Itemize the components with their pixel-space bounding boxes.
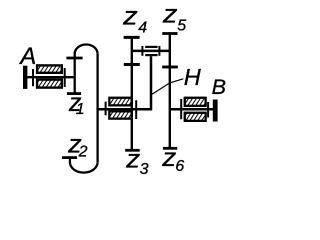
gear z1 line: [74, 52, 76, 95]
svg-text:3: 3: [140, 161, 149, 178]
wheel A lower hatched block: [37, 80, 62, 88]
wire planet axle rail: [132, 50, 170, 53]
bearing tick right of wheel A: [64, 68, 66, 87]
output terminal bar B: [213, 100, 218, 122]
gear z4 bottom tick: [124, 63, 140, 66]
wire central shaft: [98, 108, 152, 111]
bearing tick left of central wheel: [105, 102, 107, 116]
gear z5-z6 line: [169, 34, 171, 149]
wheel B lower hatched block: [185, 113, 206, 121]
carrier bracket right line: [96, 54, 98, 163]
svg-text:2: 2: [78, 143, 88, 160]
gear z5 top tick: [162, 32, 177, 35]
bearing tick right of central wheel: [135, 100, 137, 119]
carrier bearing bottom bar: [145, 54, 157, 56]
svg-text:1: 1: [76, 101, 85, 118]
gear z1 top tick: [66, 57, 82, 60]
svg-text:6: 6: [175, 158, 184, 175]
bearing tick left of wheel B: [180, 99, 182, 119]
gear z2 stub: [69, 158, 71, 163]
gear z6 bottom tick: [163, 147, 177, 150]
carrier H arm: [150, 56, 153, 110]
svg-text:B: B: [212, 75, 226, 99]
svg-text:4: 4: [138, 19, 147, 36]
central wheel upper hatched block: [109, 98, 131, 106]
gear z4 top tick: [124, 36, 140, 39]
gear z5 bottom tick: [162, 66, 178, 69]
bearing tick right of wheel B: [207, 102, 209, 118]
svg-text:H: H: [184, 64, 201, 90]
svg-text:z: z: [162, 0, 178, 28]
svg-text:5: 5: [177, 17, 186, 34]
carrier bearing top bar: [145, 46, 157, 48]
bearing tick left of wheel A: [32, 69, 34, 86]
gear z3 bottom tick: [125, 149, 140, 152]
svg-text:z: z: [122, 3, 138, 31]
carrier bracket top arc: [75, 45, 98, 54]
wire shaft A: [27, 76, 73, 78]
carrier bearing left tick: [141, 46, 143, 56]
gear z4-z3 line: [131, 36, 133, 150]
svg-text:z: z: [125, 146, 141, 174]
carrier bearing right tick: [158, 46, 160, 56]
carrier bracket bottom arc: [70, 162, 98, 172]
leader line to H: [152, 79, 183, 95]
central wheel lower hatched block: [109, 111, 131, 118]
gear z2 tick: [62, 156, 77, 159]
gear z1 bottom tick: [67, 92, 81, 95]
input terminal bar A: [23, 66, 27, 89]
wheel B upper hatched block: [185, 98, 206, 106]
wire shaft B: [170, 108, 213, 111]
wheel A upper hatched block: [37, 65, 62, 72]
